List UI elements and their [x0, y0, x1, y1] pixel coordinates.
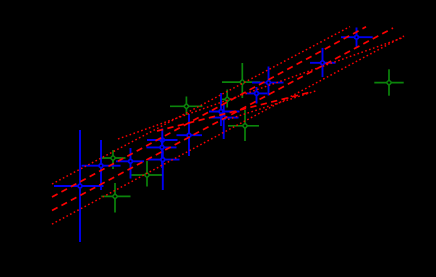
green data point G6 diamond marker [240, 80, 245, 85]
red dotted fit line: steep band lower dotted [52, 36, 404, 224]
red dotted fit line: steep band upper dotted [52, 27, 350, 184]
green data point G2 error bars [101, 183, 130, 213]
blue data point B11 error bars [252, 67, 284, 96]
blue data point B12 error bars [310, 48, 336, 77]
red dashed fit line: steep band upper dashed fit [52, 27, 366, 197]
blue data point B1 circle marker [78, 184, 82, 188]
blue data point B8 circle marker [219, 110, 223, 114]
blue data point B6 error bars [148, 151, 180, 191]
green data point G8 error bars [374, 69, 403, 95]
green data point G4 error bars [170, 97, 202, 116]
red dashed fit line: shallow band upper dashed [157, 92, 311, 131]
blue data point B5 circle marker [160, 146, 164, 150]
blue data point B4 error bars [147, 129, 178, 152]
green data point G8 diamond marker [386, 80, 391, 85]
green data point G4 diamond marker [184, 104, 189, 109]
blue data point B10 error bars [246, 87, 268, 104]
red dotted fit line: shallow band long dotted [118, 37, 404, 139]
blue data point B2 circle marker [99, 164, 103, 168]
blue data point B4 circle marker [160, 138, 164, 142]
blue data point B7 error bars [177, 114, 203, 156]
blue data point B1 error bars [54, 130, 104, 242]
blue data point B12 circle marker [321, 61, 325, 65]
green data point G3 error bars [132, 161, 164, 187]
green data point G1 diamond marker [110, 155, 115, 160]
red dashed fit line: steep band lower dashed fit [52, 28, 393, 211]
green data point G6 error bars [222, 63, 260, 98]
blue data point B7 circle marker [187, 133, 191, 137]
blue data point B3 circle marker [129, 159, 133, 163]
blue data point B9 error bars [211, 105, 239, 140]
green data point G1 error bars [100, 150, 126, 169]
green data point G5 error bars [221, 90, 233, 108]
green data point G3 diamond marker [144, 172, 149, 177]
blue data point B5 error bars [147, 138, 177, 169]
green data point G7 error bars [228, 110, 259, 141]
blue data point B2 error bars [82, 140, 121, 190]
green data point G7 diamond marker [242, 123, 247, 128]
red dotted fit line: shallow band lower dotted [228, 91, 316, 120]
blue data point B13 circle marker [355, 35, 359, 39]
blue data point B8 error bars [209, 93, 240, 126]
blue data point B13 error bars [341, 28, 373, 47]
blue data point B3 error bars [116, 148, 144, 179]
blue data point B6 circle marker [161, 158, 165, 162]
green data point G5 diamond marker [225, 97, 230, 102]
blue data point B11 circle marker [267, 81, 271, 85]
blue data point B10 circle marker [255, 92, 259, 96]
blue data point B9 circle marker [222, 116, 226, 120]
green data point G2 diamond marker [112, 194, 117, 199]
